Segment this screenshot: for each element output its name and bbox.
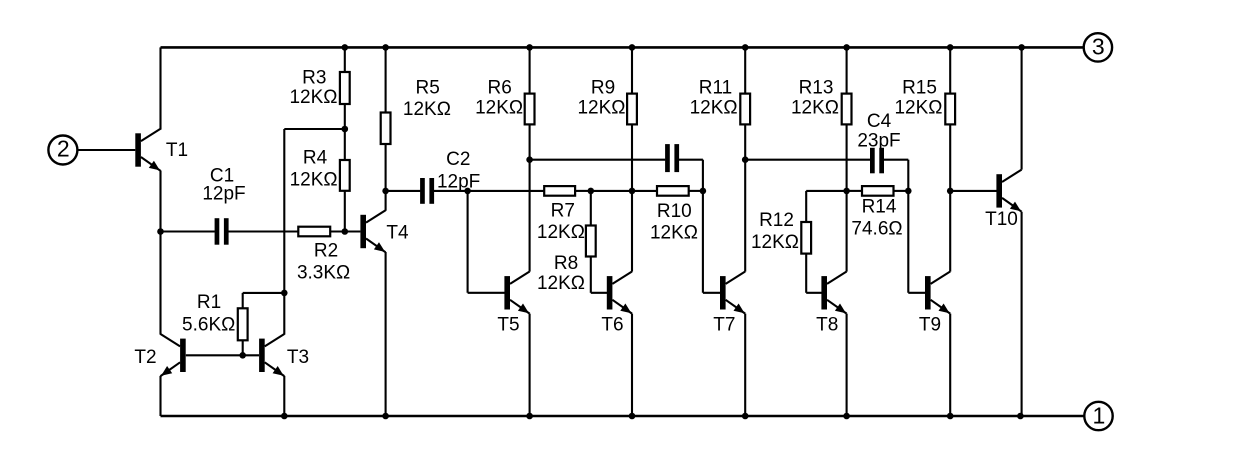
node R1 top junction [281,290,288,297]
resistor R10 [650,186,698,243]
svg-text:3.3KΩ: 3.3KΩ [297,263,350,284]
resistor R8 [537,191,596,294]
wire R13 to T8 collector [846,124,848,271]
node T6 emitter on bottom rail [629,413,636,420]
svg-text:12KΩ: 12KΩ [894,98,942,119]
resistor R12 [751,191,847,293]
node T10 emitter on bottom rail [1017,413,1024,420]
wire T4 collector to C2 [386,190,421,192]
svg-text:12KΩ: 12KΩ [791,98,839,119]
wire R15 junction to T10 base [950,190,997,192]
wire C1 row left [161,230,215,232]
wire T10 collector to top rail [1021,47,1023,169]
resistor R14 [851,186,902,239]
wire R1 top to T3 collector column [243,292,285,294]
node R3-R4 junction [342,126,349,133]
terminal 3 [1084,33,1112,61]
svg-text:12KΩ: 12KΩ [289,87,337,108]
wire top rail (node 3) [161,46,1084,49]
transistor T3 [259,334,309,376]
wire T7 emitter to bottom rail [744,314,746,416]
svg-text:T9: T9 [919,315,941,336]
svg-text:12KΩ: 12KΩ [650,223,698,244]
wire R3-R4 junction to T3 column [284,128,345,130]
node R8 top junction [588,188,595,195]
wire bottom rail (node 1) [161,415,1085,418]
node R5 top rail [382,44,389,51]
wire T9 base drop [907,191,909,293]
svg-text:R6: R6 [488,78,512,99]
svg-text:74.6Ω: 74.6Ω [851,219,902,240]
node T4 emitter on bottom rail [382,413,389,420]
wire T1 emitter / T2 collector column [159,171,161,335]
wire C4 corner drop [907,160,909,191]
svg-text:R8: R8 [554,253,578,274]
transistor T5 [497,272,529,336]
capacitor C2 [420,149,480,204]
svg-text:R2: R2 [314,241,338,262]
resistor R1 [182,292,248,355]
svg-text:R3: R3 [302,68,326,89]
svg-text:2: 2 [57,135,70,161]
svg-text:12pF: 12pF [202,184,245,205]
node R9 top rail [629,44,636,51]
transistor T2 [134,334,185,376]
node R14 right junction [905,188,912,195]
resistor R9 [577,47,636,124]
resistor R2 [297,227,350,284]
wire R9 junction to R10 [632,190,657,192]
wire T4 emitter to bottom rail [385,252,387,416]
svg-text:12KΩ: 12KΩ [290,170,338,191]
wire T5 base drop [467,191,469,293]
wire T3 emitter to bottom rail [283,376,285,416]
wire T5 base horizontal [468,292,505,294]
node T7 emitter on bottom rail [742,413,749,420]
wire T9 emitter to bottom rail [949,314,951,416]
wire T7 base drop [702,191,704,293]
wire R8 to T6 base [591,292,607,294]
capacitor C3 (unlabeled) [665,144,679,172]
svg-text:R5: R5 [416,77,440,98]
transistor T9 [919,272,950,336]
wire T5 emitter to bottom rail [529,314,531,416]
transistor T4 [360,210,409,252]
transistor T1 [135,129,188,171]
wire R8 junction to R9 line [591,190,632,192]
transistor T8 [816,272,846,336]
svg-text:12KΩ: 12KΩ [403,99,451,120]
wire R6 to T5 collector [529,124,531,271]
node R3 top rail [342,44,349,51]
node T5 emitter on bottom rail [526,413,533,420]
node T10 collector on top rail [1018,44,1025,51]
svg-text:R12: R12 [759,210,794,231]
node T10 base junction [947,188,954,195]
wire T6 emitter to bottom rail [631,314,633,416]
terminal 2 [48,135,77,164]
wire R12 to T8 base [806,292,823,294]
wire R14 to right junction [894,190,909,192]
svg-text:3: 3 [1092,34,1105,60]
capacitor C4 [857,111,900,173]
wire C1 to R2 [228,230,298,232]
wire T2 emitter to bottom rail [159,376,161,416]
svg-text:R1: R1 [197,292,221,313]
svg-text:T1: T1 [166,140,188,161]
svg-text:C4: C4 [867,111,892,132]
wire R6 junction to C3 [530,159,666,161]
svg-text:R14: R14 [862,197,897,218]
wire C4 to corner [883,159,908,161]
svg-text:T6: T6 [601,315,623,336]
resistor R5 [381,47,451,144]
svg-text:12KΩ: 12KΩ [537,222,585,243]
wire R13 junction to R14 [847,190,862,192]
transistor T10 [985,170,1021,230]
transistor T7 [713,272,745,336]
svg-text:12KΩ: 12KΩ [577,98,625,119]
svg-text:R9: R9 [591,78,615,99]
wire R15 to T9 collector [949,124,951,271]
wire T8 emitter to bottom rail [846,314,848,416]
wire R11 junction to C4 [745,159,871,161]
node R15 top rail [947,44,954,51]
node C1 row left [157,228,164,235]
wire C2 junction to R7 [468,190,545,192]
resistor R4 [290,148,350,232]
svg-text:T8: T8 [816,315,838,336]
wire R3 to R4 [344,104,346,160]
svg-text:C2: C2 [446,149,470,170]
resistor R15 [894,47,955,124]
resistor R3 [289,47,349,108]
node T5 base junction [464,188,471,195]
wire C2 to T5 base junction [434,190,468,192]
svg-text:R15: R15 [902,78,937,99]
wire R5 to T4 collector [385,144,387,211]
wire T9 base horizontal [908,292,926,294]
svg-text:R13: R13 [799,78,834,99]
node R13-R14 junction [843,188,850,195]
wire R10 to corner junction [689,190,703,192]
svg-text:T7: T7 [713,315,735,336]
svg-text:12KΩ: 12KΩ [475,98,523,119]
wire R7 to R8 junction [575,190,591,192]
svg-text:R7: R7 [551,201,575,222]
transistor T6 [601,272,632,336]
wire C3 to corner [679,159,703,161]
svg-text:12KΩ: 12KΩ [751,232,799,253]
node T4 base junction [342,228,349,235]
wire T7 base horizontal [703,292,721,294]
node R9 line junction [629,188,636,195]
svg-text:T2: T2 [134,347,156,368]
svg-text:23pF: 23pF [857,131,900,152]
svg-text:R10: R10 [657,201,692,222]
wire T1 collector to top rail [159,47,161,129]
svg-text:R4: R4 [303,148,328,169]
svg-text:1: 1 [1093,402,1106,428]
wire R2 to T4 base [330,230,360,232]
resistor R7 [537,186,585,243]
wire T2 base to T3 base [186,354,259,356]
node C4 row left junction [742,156,749,163]
svg-text:T3: T3 [287,347,309,368]
node R13 top rail [843,44,850,51]
wire C3 corner drop [702,160,704,191]
capacitor C1 [202,165,245,244]
wire R9 to T6 collector [631,124,633,271]
resistor R13 [791,47,852,124]
svg-text:12KΩ: 12KΩ [537,273,585,294]
node C3 row left junction [526,156,533,163]
node R6 top rail [526,44,533,51]
terminal 1 [1084,402,1112,430]
wire T3 collector column [283,129,285,335]
svg-text:R11: R11 [699,78,732,99]
resistor R11 [690,47,751,124]
node T8 emitter on bottom rail [843,413,850,420]
svg-text:T5: T5 [497,315,519,336]
node T3 emitter on bottom rail [281,413,288,420]
node R11 top rail [742,44,749,51]
svg-text:T10: T10 [985,209,1018,230]
svg-text:12KΩ: 12KΩ [690,98,738,119]
resistor R6 [475,47,534,124]
wire T10 emitter to bottom rail [1021,212,1023,416]
node R10 right junction [700,188,707,195]
svg-text:5.6KΩ: 5.6KΩ [182,314,235,335]
wire R11 to T7 collector [744,124,746,271]
node C2 wire junction [382,188,389,195]
wire terminal 2 to T1 base [78,149,136,151]
svg-text:T4: T4 [386,223,409,244]
svg-text:12pF: 12pF [437,172,480,193]
node T9 emitter on bottom rail [947,413,954,420]
node R1 bottom junction [239,352,246,359]
